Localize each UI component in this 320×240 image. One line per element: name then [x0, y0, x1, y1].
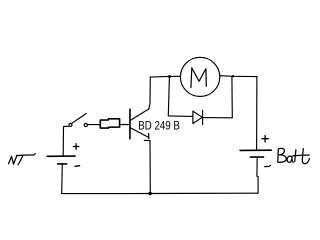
wire: diode loop left drop: [168, 77, 169, 116]
switch S1 right contact: [84, 124, 87, 127]
svg-text:BD 249 B: BD 249 B: [138, 118, 180, 132]
diode D1 (freewheel diode, anode triangle): [193, 111, 202, 123]
battery Batt positive plate: [240, 149, 271, 151]
motor M (letter M): [191, 68, 206, 88]
label: NT (handwritten): [9, 154, 36, 165]
switch S1 left contact: [69, 123, 72, 126]
wire: switch to resistor: [88, 124, 101, 126]
wire: diode loop right riser: [231, 77, 233, 118]
wire: diode cathode lead: [203, 117, 233, 119]
wire: battery NT + to switch: [63, 126, 68, 156]
wire: top rail left segment (collector corner to motor): [150, 75, 180, 78]
wire: top rail right segment (motor to battery drop): [220, 75, 257, 78]
transistor Q1 emitter lead: [130, 128, 148, 138]
label: + (battery NT): [73, 144, 79, 150]
wire: collector riser to top rail: [149, 77, 150, 109]
wire: battery NT - to bottom rail: [61, 164, 64, 193]
battery NT negative plate: [58, 163, 67, 165]
wire: emitter drop to bottom rail: [149, 141, 151, 194]
battery Batt negative plate: [250, 156, 263, 158]
wire: battery Batt to bottom rail: [257, 157, 258, 193]
wire: bottom rail: [62, 192, 258, 194]
resistor R1 (base resistor): [100, 119, 119, 128]
transistor Q1 collector lead: [130, 109, 149, 121]
label: + (battery Batt): [262, 136, 268, 143]
node: junction freewheel-diode riser / top rail: [232, 75, 234, 77]
transistor Q1 base lead: [120, 124, 130, 126]
battery NT positive plate: [47, 155, 75, 157]
transistor Q1 base bar: [129, 109, 131, 139]
label: Batt (handwritten): [278, 148, 310, 163]
node: emitter junction on bottom rail: [149, 192, 152, 195]
label: - (battery Batt): [265, 165, 271, 166]
diode D1 cathode bar: [202, 110, 204, 124]
node: junction diode-loop / top rail: [168, 75, 171, 78]
wire: diode anode lead: [168, 115, 193, 118]
transistor Q1 emitter arrow: [144, 133, 150, 140]
motor M (circle): [180, 57, 219, 96]
wire: right rail drop to battery Batt +: [256, 77, 258, 151]
label: - (battery NT): [75, 165, 80, 168]
switch S1 lever: [71, 114, 86, 124]
